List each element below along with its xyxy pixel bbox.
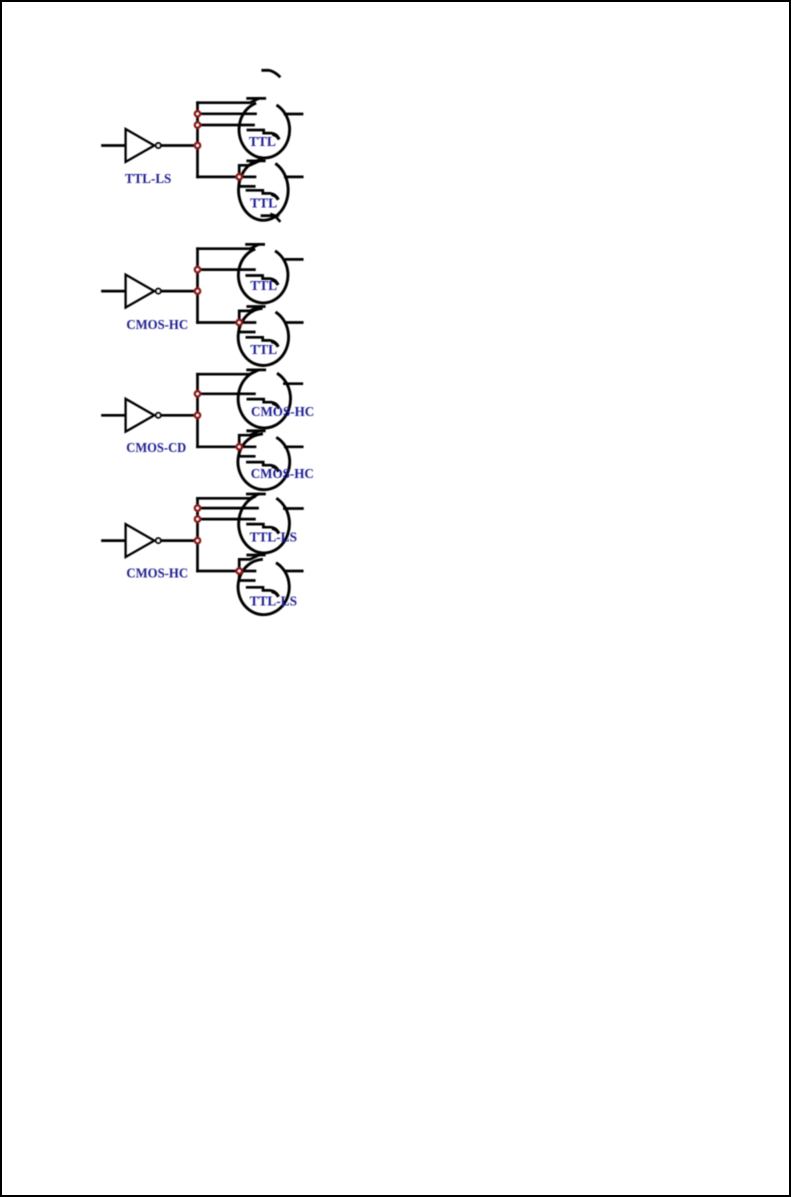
inverter U2 input wire (103, 290, 126, 293)
gate fragment (sketched gate top edge) (247, 276, 277, 284)
wire output top gate G4 (284, 507, 302, 510)
svg-text:TTL-LS: TTL-LS (250, 531, 298, 546)
inverter U4 bubble (156, 538, 161, 543)
wire input 1 bottom gate G3 (239, 445, 255, 448)
gate fragment tail (273, 342, 278, 345)
svg-text:CMOS-HC: CMOS-HC (126, 318, 188, 333)
load gate circle C3 (238, 250, 288, 303)
load gate circle C8 (238, 559, 289, 614)
svg-text:CMOS-CD: CMOS-CD (126, 441, 186, 456)
svg-text:CMOS-HC: CMOS-HC (126, 566, 188, 581)
inverter U1 bubble (156, 143, 161, 148)
wire L-up to gate top G4 (239, 555, 258, 571)
load gate circle C5 (238, 372, 290, 428)
gate fragment (sketched gate top edge) (248, 130, 278, 138)
gate fragment tail (273, 195, 278, 198)
load gate circle C4 (238, 309, 288, 366)
inverter U4 (126, 524, 155, 557)
wire bottom branch G2 (198, 321, 240, 324)
gate fragment tail (273, 592, 278, 595)
wire input 1 to top gate G2 (198, 268, 255, 271)
inverter U2 (126, 275, 155, 308)
wire U2 output to junction (162, 290, 198, 293)
node G2 n1 (195, 267, 200, 272)
wire top branch G3 (198, 370, 259, 374)
wire input 1 bottom gate G2 (239, 321, 255, 324)
wire trunk G2 (196, 249, 199, 323)
svg-text:TTL-LS: TTL-LS (125, 172, 172, 187)
wire bottom branch G4 (198, 570, 240, 573)
wire output bottom gate G2 (285, 321, 302, 324)
node G3 n1 (195, 391, 200, 396)
wire input 2 to top gate G4 (198, 518, 255, 521)
gate fragment (sketched gate top edge) (247, 462, 277, 470)
wire input 2 bottom gate G2 (239, 323, 254, 333)
wire L-up to gate top G1 (239, 161, 258, 177)
wire input 1 to top gate G3 (198, 392, 255, 395)
inverter U2 bubble (156, 289, 161, 294)
svg-text:TTL: TTL (250, 279, 277, 294)
wire L-up to gate top G2 (239, 307, 258, 323)
inverter U3 bubble (156, 413, 161, 418)
wire input 2 bottom gate G3 (239, 447, 254, 457)
load gate circle C2 (239, 160, 289, 220)
node G1 n2 (195, 122, 200, 127)
gate fragment (sketched gate top edge) (247, 337, 277, 345)
wire top branch G4 (198, 494, 259, 498)
inverter U1 (126, 129, 155, 162)
wire output top gate G1 (285, 113, 302, 116)
wire U1 output to junction (162, 144, 198, 147)
wire bottom branch G3 (198, 445, 240, 448)
node G1 junction (195, 143, 200, 148)
inverter U4 input wire (103, 539, 126, 542)
wire bottom branch G1 (198, 176, 240, 179)
wire output bottom gate G1 (285, 176, 302, 179)
load gate circle C6 (238, 434, 290, 490)
wire output top gate G2 (286, 258, 302, 261)
node G4 n2 (195, 517, 200, 522)
inverter U1 input wire (103, 144, 126, 147)
svg-text:CMOS-HC: CMOS-HC (251, 467, 314, 482)
wire input 1 to top gate G1 (198, 112, 256, 115)
node G4 junction (195, 538, 200, 543)
wire input 1 bottom gate G1 (239, 176, 255, 179)
wire input 2 bottom gate G1 (239, 177, 254, 187)
wire trunk G3 (196, 374, 199, 447)
wire output bottom gate G4 (285, 570, 302, 573)
node G4 n1 (195, 506, 200, 511)
svg-text:TTL: TTL (249, 135, 276, 150)
stray arc fragment above first load circle (263, 70, 280, 76)
wire input 1 bottom gate G4 (239, 570, 255, 573)
wire L-up to gate top G3 (239, 431, 258, 447)
gate fragment (sketched gate top edge) (248, 399, 278, 407)
wire gate top edge G1 (248, 97, 265, 100)
node J1b (237, 174, 242, 179)
inverter U3 (126, 399, 155, 432)
svg-text:TTL: TTL (250, 343, 277, 358)
gate fragment tail (274, 529, 279, 532)
gate fragment tail (273, 280, 278, 283)
gate fragment tail (273, 467, 278, 470)
gate fragment tail (274, 404, 279, 407)
node G2 junction (195, 289, 200, 294)
gate fragment (sketched gate top edge) (247, 587, 277, 595)
svg-text:TTL: TTL (250, 196, 277, 211)
wire gate top edge bottom gate G4 (248, 554, 264, 557)
pen overshoot mark bottom of C2 (262, 214, 272, 217)
inverter U3 input wire (103, 414, 126, 417)
wire trunk G4 (196, 498, 199, 571)
wire U3 output to junction (162, 414, 198, 417)
wire top branch G1 (198, 99, 259, 103)
node G1 n1 (195, 111, 200, 116)
gate fragment tail (274, 135, 279, 138)
wire output top gate G3 (284, 382, 301, 385)
wire U4 output to junction (162, 539, 198, 542)
svg-text:TTL-LS: TTL-LS (250, 595, 298, 610)
node G3 junction (195, 413, 200, 418)
wire input 2 bottom gate G4 (239, 571, 254, 581)
gate fragment (sketched gate top edge) (247, 190, 277, 198)
wire gate top edge G4 (247, 493, 264, 496)
load gate circle C7 (239, 497, 290, 553)
wire trunk G1 (196, 103, 199, 177)
node J3b (237, 444, 242, 449)
wire output bottom gate G3 (285, 445, 302, 448)
wire gate top edge bottom gate G1 (248, 159, 264, 162)
wire gate top edge G2 (247, 243, 264, 246)
node J4b (237, 568, 242, 573)
wire gate top edge bottom gate G3 (248, 429, 264, 432)
wire gate top edge G3 (248, 368, 265, 371)
load gate circle C1 (239, 104, 290, 158)
svg-text:CMOS-HC: CMOS-HC (251, 405, 314, 420)
node J2b (237, 320, 242, 325)
wire top branch G2 (198, 245, 259, 249)
wire input 1 to top gate G4 (198, 507, 258, 510)
wire input 2 to top gate G1 (198, 124, 254, 127)
wire gate top edge bottom gate G2 (248, 305, 264, 308)
gate fragment (sketched gate top edge) (248, 524, 278, 532)
